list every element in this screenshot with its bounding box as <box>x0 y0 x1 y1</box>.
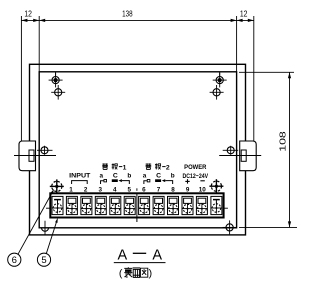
svg-text:A: A <box>117 247 127 263</box>
svg-text:8: 8 <box>171 186 175 193</box>
svg-text:1: 1 <box>69 186 73 193</box>
svg-text:): ) <box>149 268 153 280</box>
svg-text:POWER: POWER <box>184 164 206 171</box>
svg-text:12: 12 <box>240 9 248 18</box>
svg-text:6: 6 <box>142 186 146 193</box>
svg-text:6: 6 <box>12 255 17 266</box>
svg-text:10: 10 <box>199 186 207 193</box>
svg-text:7: 7 <box>157 186 161 193</box>
svg-text:A: A <box>152 247 162 263</box>
svg-text:4: 4 <box>113 186 117 193</box>
svg-text:108: 108 <box>277 131 287 152</box>
svg-text:DC12~24V: DC12~24V <box>183 173 209 180</box>
svg-text:b: b <box>127 172 131 179</box>
svg-text:(: ( <box>119 268 123 280</box>
svg-text:a: a <box>143 172 147 179</box>
svg-text:INPUT: INPUT <box>69 172 91 179</box>
svg-text:5: 5 <box>128 186 132 193</box>
svg-text:a: a <box>99 172 103 179</box>
svg-text:12: 12 <box>24 9 32 18</box>
svg-text:138: 138 <box>122 9 133 18</box>
svg-text:b: b <box>171 172 175 179</box>
svg-text:1: 1 <box>123 164 127 171</box>
svg-text:C: C <box>113 172 118 179</box>
svg-text:3: 3 <box>98 186 102 193</box>
svg-text:5: 5 <box>41 255 46 266</box>
svg-text:2: 2 <box>166 164 170 171</box>
svg-text:C: C <box>156 172 161 179</box>
svg-text:2: 2 <box>84 186 88 193</box>
svg-text:9: 9 <box>186 186 190 193</box>
